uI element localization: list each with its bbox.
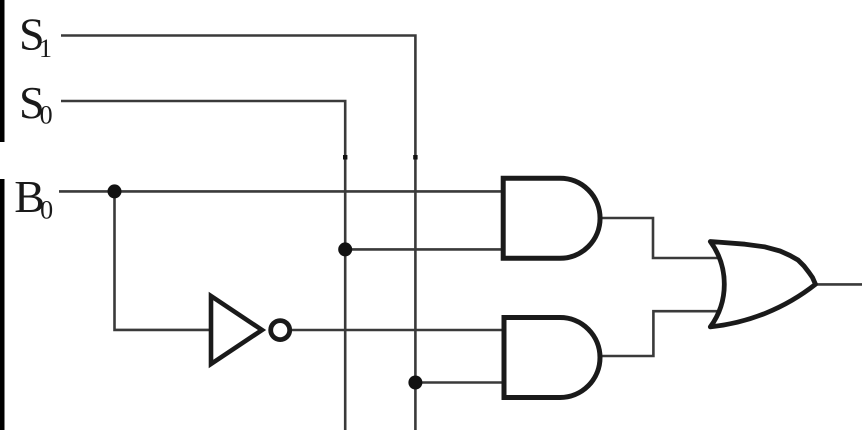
- svg-text:0: 0: [40, 101, 53, 130]
- svg-text:0: 0: [40, 195, 53, 224]
- svg-text:1: 1: [39, 34, 52, 63]
